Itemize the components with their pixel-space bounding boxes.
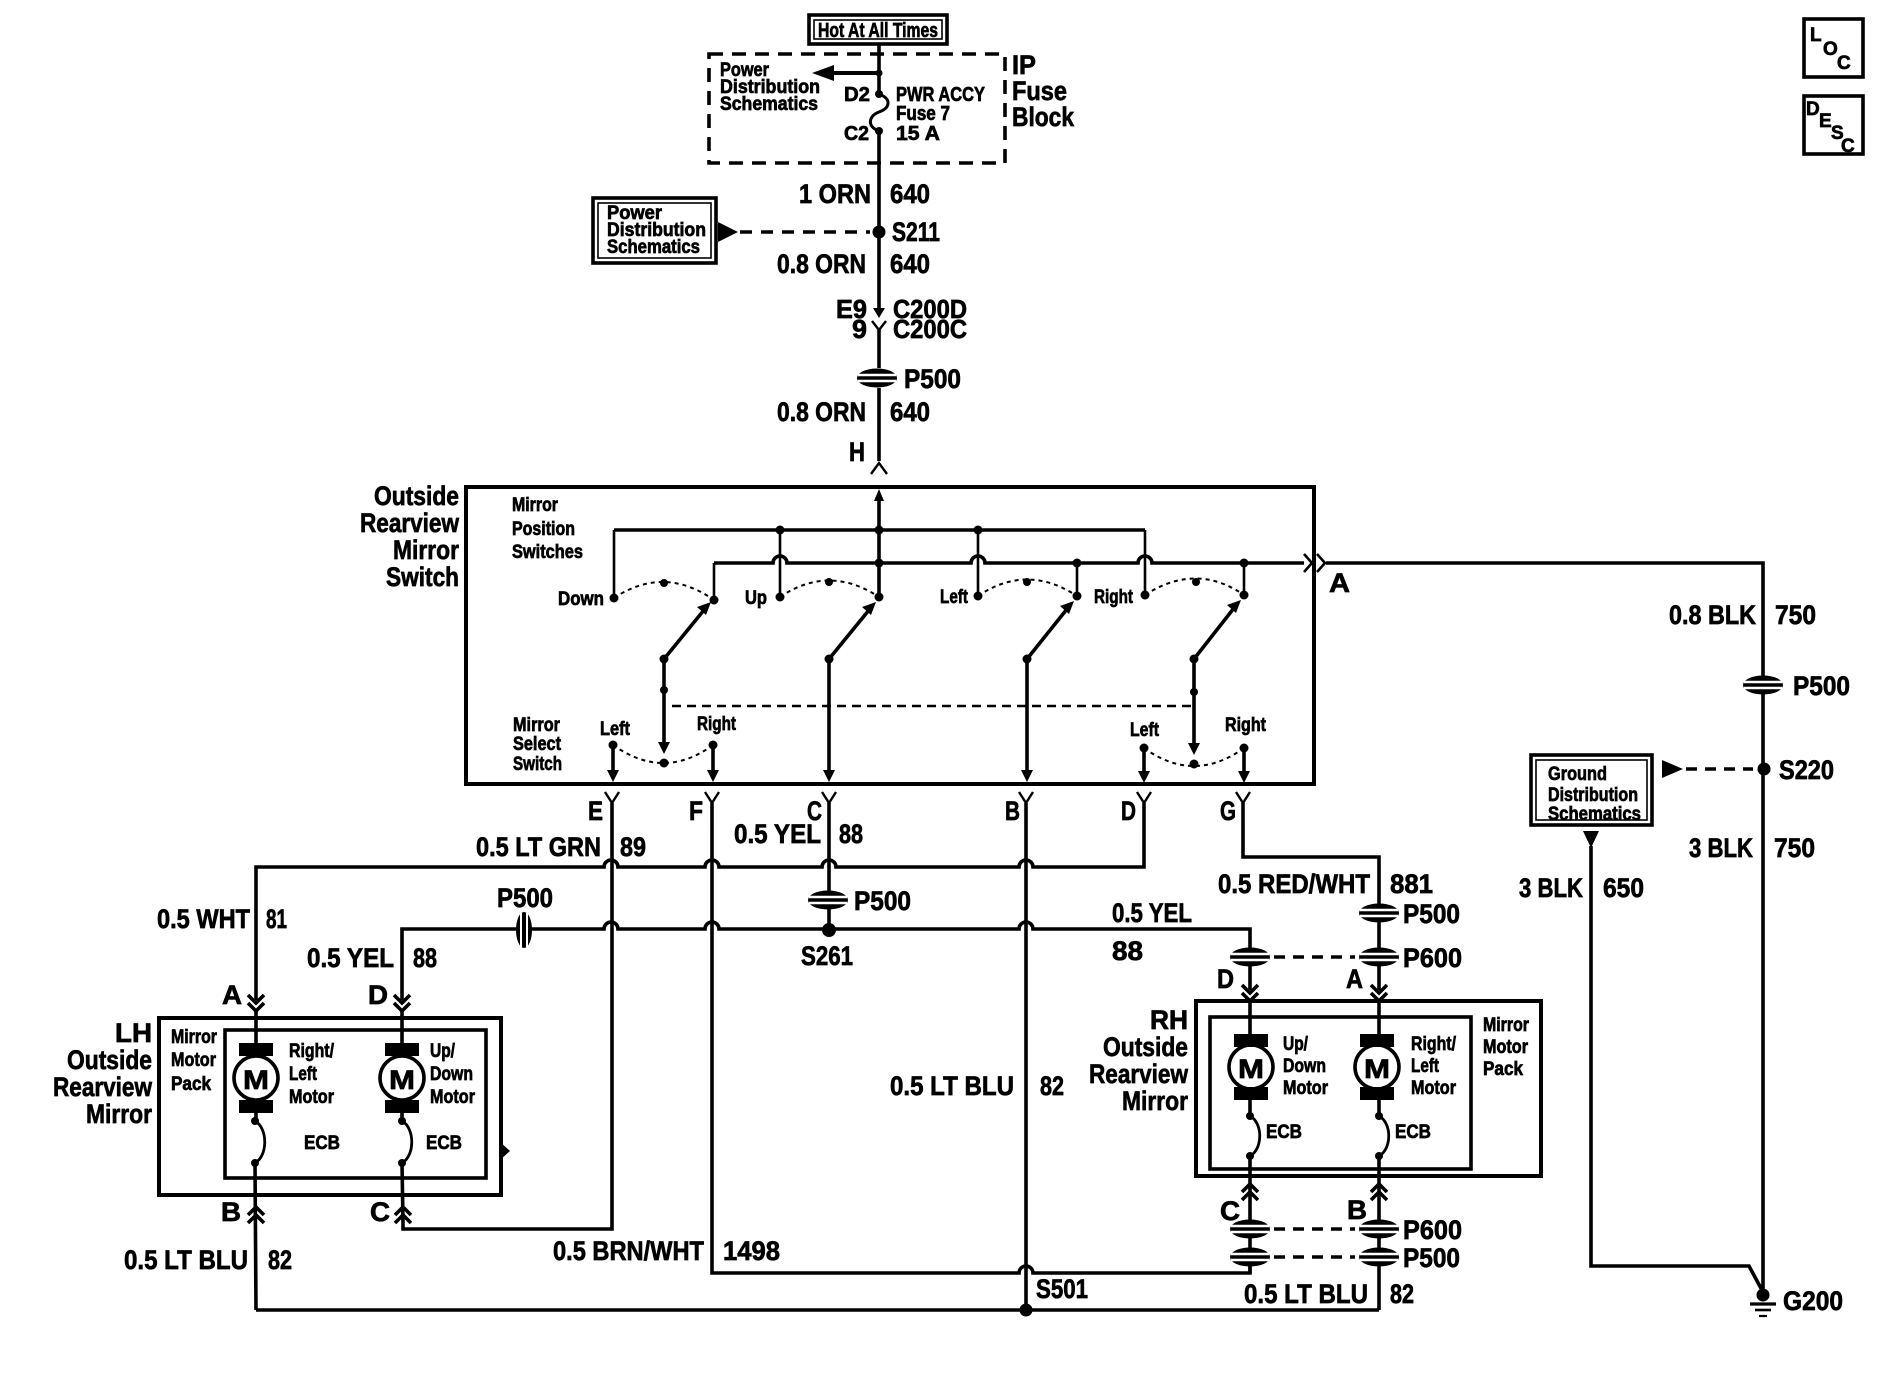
wire: bus2 to Down throw contact [713, 563, 716, 600]
svg-text:Mirror: Mirror [86, 1099, 152, 1129]
svg-text:82: 82 [1390, 1279, 1414, 1309]
pin A of switch (wire break at box edge) [1304, 554, 1350, 598]
svg-text:O: O [1823, 39, 1838, 60]
svg-text:D: D [368, 980, 388, 1010]
svg-text:Mirror: Mirror [171, 1027, 217, 1048]
ECB (RH motor M4) [1375, 1100, 1431, 1160]
svg-text:9: 9 [852, 314, 867, 344]
svg-text:Motor: Motor [1411, 1078, 1457, 1099]
svg-text:Mirror: Mirror [512, 495, 558, 516]
svg-text:Right: Right [1094, 587, 1134, 608]
splice S501 [1020, 1274, 1089, 1317]
svg-text:Distribution: Distribution [1548, 785, 1638, 806]
svg-text:Block: Block [1012, 102, 1075, 132]
svg-text:Ground: Ground [1548, 764, 1607, 785]
svg-text:Schematics: Schematics [1548, 804, 1641, 825]
svg-text:750: 750 [1774, 833, 1815, 863]
ECB (LH motor M1) [251, 1113, 340, 1167]
pin D of switch [1121, 792, 1151, 830]
svg-text:Switch: Switch [513, 754, 562, 775]
svg-text:ECB: ECB [1395, 1122, 1431, 1143]
svg-text:Pack: Pack [171, 1074, 211, 1095]
wire: 0.5 YEL 88 (LH pin D across to RH pin D, with hops) [307, 922, 1250, 1000]
svg-text:Outside: Outside [374, 481, 459, 511]
labels: 0.5 LT BLU 82 (RH pin B wire) [1244, 1279, 1414, 1309]
svg-text:88: 88 [839, 819, 863, 849]
svg-text:15 A: 15 A [896, 123, 940, 145]
svg-text:89: 89 [620, 832, 646, 862]
svg-text:Left: Left [1411, 1056, 1440, 1077]
svg-text:M: M [243, 1065, 269, 1095]
svg-text:G200: G200 [1783, 1286, 1843, 1316]
wire: branch arrow to power distribution (left) [812, 65, 883, 81]
svg-text:ECB: ECB [304, 1133, 340, 1154]
svg-text:1 ORN: 1 ORN [799, 179, 871, 209]
splice S261 [801, 923, 853, 971]
wire: pin E of switch down and over to LH pin C [403, 830, 612, 1229]
RH mirror pin C (label and chevrons) [1220, 1184, 1258, 1226]
svg-text:Down: Down [1283, 1056, 1326, 1077]
svg-text:ECB: ECB [1266, 1122, 1302, 1143]
svg-text:Motor: Motor [430, 1087, 476, 1108]
reference box: LOC [1804, 19, 1863, 77]
svg-text:Pack: Pack [1483, 1059, 1523, 1080]
svg-text:M: M [389, 1065, 415, 1095]
box: RH Outside Rearview Mirror [1196, 1001, 1541, 1176]
svg-text:Left: Left [940, 587, 969, 608]
svg-text:Select: Select [513, 734, 562, 755]
box: Power Distribution Schematics (left reference) [593, 198, 870, 263]
svg-text:A: A [1329, 568, 1350, 598]
svg-text:S501: S501 [1036, 1274, 1088, 1304]
svg-text:Mirror: Mirror [513, 715, 561, 736]
svg-text:Motor: Motor [1283, 1078, 1329, 1099]
svg-text:Right: Right [1225, 715, 1267, 736]
label: RH Outside Rearview Mirror [1089, 1005, 1189, 1116]
svg-text:M: M [1364, 1054, 1390, 1084]
label: Mirror Position Switches [512, 495, 583, 563]
motor M1: LH Right/Left Motor [234, 1041, 335, 1113]
flag box: Hot At All Times [809, 15, 947, 44]
RH mirror pin A (chevrons) [1371, 985, 1387, 1034]
svg-text:P500: P500 [497, 883, 553, 913]
svg-text:0.5 WHT: 0.5 WHT [157, 904, 250, 934]
svg-text:640: 640 [890, 249, 930, 279]
svg-text:0.5 LT GRN: 0.5 LT GRN [476, 832, 601, 862]
svg-text:C2: C2 [844, 123, 869, 145]
svg-text:D: D [1121, 796, 1136, 826]
svg-text:0.5 RED/WHT: 0.5 RED/WHT [1218, 869, 1370, 899]
wire: 0.5 LT BLU 82 (pin B of switch down to S501) [890, 830, 1064, 1310]
svg-text:0.5 YEL: 0.5 YEL [1112, 898, 1192, 928]
select switch left half (Left/Right contacts to pins E/F) [600, 714, 737, 782]
switch arm: Right (to select switch) [1190, 600, 1242, 664]
label: Mirror Select Switch [513, 715, 562, 775]
svg-text:Left: Left [1130, 720, 1160, 741]
svg-text:P600: P600 [1403, 943, 1462, 973]
wire: pin C feed down [823, 659, 835, 782]
label: Mirror Motor Pack (RH) [1483, 1015, 1529, 1080]
wire: 0.8 ORN 640 below S211 [777, 249, 930, 279]
ECB (RH motor M3) [1246, 1100, 1302, 1160]
wire: Right arm down to select switch right half [1188, 659, 1200, 769]
svg-text:C: C [370, 1197, 390, 1227]
wire: bottom 0.5 LT BLU bus (LH pin B to RH pin B) [256, 1308, 1379, 1312]
svg-text:A: A [1346, 964, 1363, 994]
svg-text:88: 88 [413, 943, 437, 973]
wire: bus1 (upper feed bus) [614, 528, 1145, 532]
switch arm: Left (to pin B) [1023, 601, 1075, 664]
svg-text:ECB: ECB [426, 1133, 462, 1154]
svg-text:F: F [689, 796, 703, 826]
box: RH mirror motor pack (inner) [1210, 1017, 1471, 1169]
wire: 0.8 ORN 640 into switch pin H [777, 388, 930, 461]
svg-text:0.5 LT BLU: 0.5 LT BLU [890, 1071, 1014, 1101]
wire: 0.5 RED/WHT 881 (pin G of switch to RH pin A chain) [1218, 830, 1433, 990]
svg-text:Left: Left [600, 719, 631, 740]
svg-text:82: 82 [268, 1245, 292, 1275]
box: Ground Distribution Schematics [1531, 755, 1753, 825]
switch box: Outside Rearview Mirror Switch [466, 487, 1314, 784]
wire: H feed arrow into bus [874, 489, 884, 597]
svg-text:E: E [1819, 111, 1832, 132]
label: Mirror Motor Pack (LH) [171, 1027, 217, 1095]
svg-text:Down: Down [430, 1064, 473, 1085]
wire: Down/Up arm down to select switch left half [658, 659, 670, 768]
svg-text:0.8 ORN: 0.8 ORN [777, 397, 866, 427]
RH mirror pin B (label and chevrons) [1347, 1184, 1387, 1225]
svg-text:Motor: Motor [171, 1050, 217, 1071]
svg-text:M: M [1238, 1054, 1264, 1084]
svg-text:Left: Left [289, 1064, 318, 1085]
svg-text:D: D [1806, 99, 1820, 120]
connector P500 (on RED/WHT wire) [1359, 899, 1460, 929]
svg-text:Mirror: Mirror [393, 535, 459, 565]
switch: Right position [1094, 578, 1249, 608]
wire: bus2 (lower bus to pin A) with crossover hops [714, 556, 1304, 563]
connector P500 (top, in-line) [857, 364, 961, 394]
svg-text:C: C [1841, 136, 1855, 157]
svg-text:Right/: Right/ [289, 1041, 335, 1062]
svg-text:81: 81 [266, 904, 287, 934]
svg-text:C200C: C200C [893, 314, 967, 344]
node: bus1 junctions [776, 526, 785, 535]
svg-text:S211: S211 [892, 217, 940, 247]
wire: 3 BLK 650 from ground distribution box down to G200 [1519, 831, 1763, 1292]
wire: 0.5 BRN/WHT 1498 (pin F of switch to RH pin C, hop over B wire) [553, 830, 1250, 1273]
wire: RH motor M4 to pin B chain [1377, 1156, 1381, 1310]
svg-text:3 BLK: 3 BLK [1519, 873, 1583, 903]
svg-text:640: 640 [890, 179, 930, 209]
svg-text:3 BLK: 3 BLK [1689, 833, 1753, 863]
pin G of switch [1220, 792, 1250, 830]
svg-text:L: L [1810, 25, 1822, 46]
LH mirror pin D (label and chevrons) [368, 980, 410, 1043]
svg-text:640: 640 [890, 397, 930, 427]
switch arm: Up motor feed (to pin C) [825, 602, 877, 664]
svg-text:P500: P500 [1403, 899, 1460, 929]
svg-text:P500: P500 [854, 886, 911, 916]
svg-text:Switches: Switches [512, 542, 583, 563]
svg-text:Up/: Up/ [1283, 1034, 1309, 1055]
pin E of switch [588, 792, 619, 830]
svg-text:Schematics: Schematics [607, 237, 700, 258]
connector C200D / C200C (pins E9 / 9) [836, 294, 967, 368]
svg-text:Rearview: Rearview [360, 508, 460, 538]
wire: LH motor M2 to pin C [402, 1163, 403, 1222]
svg-text:Mirror: Mirror [1483, 1015, 1529, 1036]
svg-text:0.5 BRN/WHT: 0.5 BRN/WHT [553, 1236, 704, 1266]
pin B of switch [1005, 792, 1033, 830]
splice S211 [873, 217, 941, 247]
svg-text:0.8 ORN: 0.8 ORN [777, 249, 866, 279]
svg-text:650: 650 [1603, 873, 1644, 903]
connector P500 (right, in-line) [1743, 671, 1850, 701]
svg-text:Hot At All Times: Hot At All Times [818, 20, 938, 42]
box: LH Outside Rearview Mirror [159, 1018, 501, 1195]
svg-text:B: B [1347, 1195, 1367, 1225]
motor M3: RH Up/Down Motor [1229, 1034, 1329, 1100]
switch arm: Down/Up common (to select switch) [660, 602, 712, 664]
wire: bus1 left end down to Down contact [613, 530, 616, 598]
svg-text:P500: P500 [904, 364, 961, 394]
wire: bus1 to Up contact [779, 530, 782, 597]
pin H of switch [849, 437, 887, 474]
svg-text:G: G [1220, 796, 1236, 826]
motor M2: LH Up/Down Motor [380, 1041, 476, 1113]
switch: Down position (contacts and dashed arc) [558, 579, 719, 610]
svg-text:RH: RH [1150, 1005, 1188, 1035]
label: IP Fuse Block [1012, 50, 1075, 132]
svg-text:Motor: Motor [289, 1087, 335, 1108]
labels: 0.5 LT BLU 82 (LH pin B wire) [124, 1245, 292, 1275]
svg-text:82: 82 [1040, 1071, 1064, 1101]
svg-text:P500: P500 [1793, 671, 1850, 701]
svg-text:Outside: Outside [1103, 1032, 1188, 1062]
wire: 1 ORN 640 from fuse to S211 [799, 131, 930, 312]
mechanical link (dashed) between select switch halves [672, 705, 1194, 708]
wire: RH motor M3 to pin C chain [1248, 1156, 1252, 1273]
svg-text:P500: P500 [1403, 1243, 1460, 1273]
svg-text:Rearview: Rearview [53, 1072, 153, 1102]
box: LH mirror motor pack (inner) [225, 1030, 486, 1178]
svg-text:750: 750 [1775, 600, 1816, 630]
ECB (LH motor M2) [398, 1113, 462, 1167]
svg-text:88: 88 [1112, 936, 1143, 966]
svg-text:H: H [849, 437, 865, 467]
fuse PWR ACCY Fuse 7 15 A (pins D2/C2) [844, 84, 986, 145]
label: LH Outside Rearview Mirror [53, 1018, 153, 1129]
svg-text:Position: Position [512, 519, 575, 540]
wire: 0.8 BLK 750 from pin A to right side [1326, 563, 1816, 1294]
labels: 0.5 YEL 88 near RH corner [1112, 898, 1192, 966]
node: bus2 junctions [875, 559, 884, 568]
switch: Left position [940, 578, 1082, 608]
label: Outside Rearview Mirror Switch [360, 481, 460, 592]
svg-text:0.5 LT BLU: 0.5 LT BLU [1244, 1279, 1368, 1309]
label: 3 BLK 750 (below S220) [1689, 833, 1815, 863]
svg-text:S220: S220 [1779, 755, 1834, 785]
svg-text:Down: Down [558, 589, 604, 610]
svg-text:Rearview: Rearview [1089, 1059, 1189, 1089]
svg-text:B: B [221, 1197, 241, 1227]
svg-text:Up: Up [745, 588, 767, 609]
wire: bus1 right end down to Right contact [1144, 530, 1147, 595]
svg-text:B: B [1005, 796, 1020, 826]
svg-text:881: 881 [1390, 869, 1433, 899]
select switch right half (Left/Right contacts to pins D/G) [1130, 715, 1267, 783]
note: Power Distribution Schematics (inside fuse block) [720, 60, 820, 115]
wire: feed from Hot At All Times into fuse block [877, 44, 881, 94]
svg-text:Right: Right [697, 714, 737, 735]
svg-text:0.5 YEL: 0.5 YEL [307, 943, 394, 973]
wire: pin C of switch down through P500 to S261 [734, 819, 863, 931]
wire: pin B feed down [1021, 659, 1033, 782]
svg-text:Motor: Motor [1483, 1037, 1529, 1058]
wire: bus2 to Right throw contact [1243, 563, 1246, 595]
svg-text:D2: D2 [844, 84, 870, 106]
wire: 0.5 LT GRN 89 (pin D of switch to LH pin A, with hops) [157, 830, 1144, 1000]
svg-text:0.5 LT BLU: 0.5 LT BLU [124, 1245, 248, 1275]
ground G200 [1750, 1286, 1843, 1316]
svg-text:1498: 1498 [723, 1236, 780, 1266]
pin F of switch [689, 792, 719, 830]
connector P500 (small, on 0.5 YEL wire) [497, 883, 553, 948]
svg-text:Up/: Up/ [430, 1041, 456, 1062]
svg-text:E: E [588, 796, 603, 826]
pin C of switch [807, 792, 836, 830]
svg-text:LH: LH [115, 1018, 152, 1048]
svg-text:D: D [1217, 964, 1234, 994]
svg-text:0.5 YEL: 0.5 YEL [734, 819, 821, 849]
RH mirror pin D (chevrons) [1242, 985, 1258, 1034]
svg-text:C: C [1220, 1196, 1240, 1226]
wire: bus2 to Left throw contact [1076, 563, 1079, 596]
svg-text:A: A [222, 980, 242, 1010]
svg-text:S261: S261 [801, 941, 853, 971]
IP fuse block dashed box [709, 54, 1005, 163]
connector P600 pair (RH bottom, dashed mate line) [1230, 1215, 1462, 1245]
svg-text:0.8 BLK: 0.8 BLK [1669, 600, 1756, 630]
svg-text:C: C [1837, 53, 1851, 74]
wire: bus1 to Left contact [977, 530, 980, 596]
splice S220 [1758, 755, 1835, 785]
motor M4: RH Right/Left Motor [1355, 1034, 1457, 1100]
connector P500 pair (RH bottom, dashed mate line) [1230, 1243, 1460, 1273]
LH mirror pin C (label and chevrons) [370, 1197, 411, 1227]
artifact arrow on LH box right edge [499, 1141, 510, 1161]
svg-text:Right/: Right/ [1411, 1034, 1457, 1055]
svg-text:P600: P600 [1403, 1215, 1462, 1245]
reference box: DESC [1804, 96, 1863, 157]
switch: Up position [745, 578, 884, 609]
wire: LH motor M1 to pin B [255, 1163, 256, 1310]
connector P600 pair (RH top, dashed mate line) [1230, 943, 1462, 973]
connector P500 (on pin C wire) [808, 886, 911, 916]
LH mirror pin A (label and chevrons) [222, 980, 264, 1043]
svg-text:Mirror: Mirror [1122, 1086, 1188, 1116]
LH mirror pin B (label and chevrons) [221, 1197, 264, 1227]
svg-text:Outside: Outside [67, 1045, 152, 1075]
svg-text:Fuse 7: Fuse 7 [896, 103, 950, 125]
svg-text:Switch: Switch [386, 562, 459, 592]
svg-text:Schematics: Schematics [720, 94, 818, 115]
